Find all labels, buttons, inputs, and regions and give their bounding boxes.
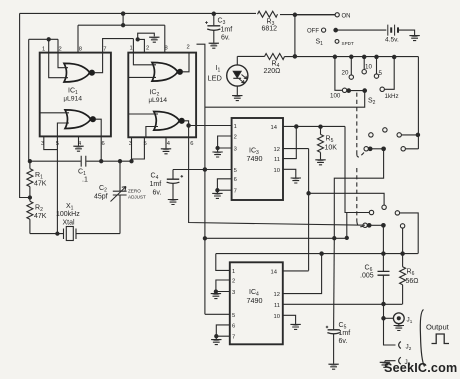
resistor R5 bbox=[320, 127, 322, 135]
wire pin14 stub to Vcc wire bbox=[346, 213, 348, 238]
svg-text:47K: 47K bbox=[34, 181, 47, 188]
svg-text:6: 6 bbox=[234, 177, 237, 183]
IC3 box bbox=[232, 118, 283, 200]
pins IC2 bbox=[129, 45, 194, 148]
wire IC2 top gate lower input bbox=[128, 76, 156, 78]
capacitor C3 electrolytic bbox=[213, 14, 215, 25]
pins IC1 bbox=[41, 47, 106, 148]
resistor R4 bbox=[265, 54, 285, 60]
svg-text:3: 3 bbox=[234, 147, 237, 153]
svg-text:5: 5 bbox=[232, 313, 235, 319]
resistor R1 bbox=[29, 161, 31, 168]
svg-text:3: 3 bbox=[232, 290, 235, 296]
svg-text:SeekIC.com: SeekIC.com bbox=[384, 361, 457, 375]
ground battery bbox=[409, 36, 419, 41]
wire IC2 pin1 riser from IC1 pin7 wire bbox=[132, 39, 134, 53]
svg-text:J1: J1 bbox=[407, 317, 413, 324]
svg-text:C4: C4 bbox=[151, 173, 159, 182]
svg-text:7490: 7490 bbox=[247, 296, 263, 305]
switch S1 OFF contact bbox=[322, 28, 326, 32]
svg-text:4: 4 bbox=[167, 141, 171, 147]
switch S2 deck2 wiper bbox=[364, 147, 368, 151]
wire deck2 lower contact to right rail bbox=[401, 147, 405, 151]
svg-text:7490: 7490 bbox=[247, 154, 263, 163]
wire deck2 wiper to C5 node bbox=[334, 149, 383, 238]
wire deck3 wiper to C6 bbox=[382, 225, 384, 252]
wire battery to ground bbox=[399, 30, 415, 35]
wire IC2 pin6 drop long to IC4 region bbox=[189, 126, 365, 226]
svg-text:Output: Output bbox=[426, 323, 450, 332]
svg-text:1: 1 bbox=[42, 47, 45, 53]
svg-text:SPDT: SPDT bbox=[342, 41, 354, 46]
crystal X1 bbox=[64, 229, 77, 240]
wire IC2 bottom gate upper input bbox=[128, 113, 158, 115]
wire LED cathode to ground bbox=[236, 86, 238, 95]
IC4 box bbox=[230, 262, 283, 344]
wire LED anode bbox=[236, 56, 238, 65]
resistor R2 bbox=[29, 198, 31, 202]
svg-text:μL914: μL914 bbox=[149, 97, 168, 104]
wire IC4 pin1 riser to y253 net bbox=[216, 254, 418, 271]
svg-text:S1: S1 bbox=[316, 39, 324, 48]
connector J2 bbox=[384, 318, 396, 345]
svg-text:1mf: 1mf bbox=[339, 330, 351, 337]
resistor R6 bbox=[402, 254, 404, 267]
pins IC4 bbox=[232, 269, 280, 341]
ground IC3 pin10 bbox=[291, 178, 301, 183]
svg-text:LED: LED bbox=[208, 74, 222, 83]
capacitor C6 bbox=[382, 254, 384, 271]
wire deck3 contact feed from IC3 pin12 bbox=[309, 193, 385, 205]
wire IC2 pin1 internal drop to gate bbox=[133, 53, 156, 65]
svg-text:45pf: 45pf bbox=[94, 194, 108, 201]
wire IC1 pin2 drop to gate input bbox=[58, 39, 68, 67]
switch S2 deck1 contact 5 bbox=[376, 57, 378, 74]
node bus junction dots bbox=[121, 12, 124, 15]
svg-text:5: 5 bbox=[56, 141, 59, 147]
capacitor C5 electrolytic bbox=[333, 238, 336, 329]
svg-text:J2: J2 bbox=[406, 344, 412, 351]
svg-text:1: 1 bbox=[234, 124, 237, 130]
svg-text:1: 1 bbox=[232, 269, 235, 275]
wire S1 pole drop bbox=[294, 15, 296, 57]
wire IC1 top gate output to pin7 bbox=[94, 39, 133, 73]
wire deck3 contact to y253 net bbox=[400, 213, 419, 254]
wire IC3 pin12/11 tie bbox=[283, 149, 309, 159]
svg-text:C3: C3 bbox=[218, 18, 226, 27]
svg-text:2: 2 bbox=[59, 47, 62, 53]
ground J3 bbox=[380, 362, 390, 367]
ground C4 bbox=[168, 200, 178, 205]
switch S1 lower contact bbox=[335, 40, 339, 44]
capacitor C1 bbox=[81, 156, 86, 167]
ground IC2 pin1/2 bbox=[149, 37, 159, 42]
svg-text:3: 3 bbox=[129, 141, 132, 147]
wire dashed S2 gang link bbox=[357, 93, 364, 157]
ground R5 bbox=[315, 160, 325, 165]
wire IC2 pin3 drop bbox=[131, 137, 133, 161]
ground LED bbox=[232, 96, 242, 101]
switch S2 deck1 contact 10 bbox=[363, 57, 365, 70]
svg-text:C2: C2 bbox=[99, 185, 107, 194]
connector J1 bbox=[383, 304, 385, 318]
wire IC3 pin14 line bbox=[283, 125, 345, 127]
connector J3 bbox=[385, 361, 396, 362]
svg-text:12: 12 bbox=[274, 292, 280, 298]
wire IC4 pin12 riser to y253 bbox=[283, 254, 322, 294]
svg-text:10: 10 bbox=[274, 168, 280, 174]
wire IC2 bottom gate output to pin6 and IC3 pin1 bbox=[184, 121, 232, 126]
wire S1 pole to battery bbox=[338, 29, 387, 31]
wire top supply bus bbox=[20, 12, 256, 14]
svg-text:4.5v.: 4.5v. bbox=[385, 37, 399, 44]
svg-text:1: 1 bbox=[130, 46, 133, 52]
wire IC4 pin6/7 tie to ground bbox=[216, 325, 230, 339]
svg-text:14: 14 bbox=[271, 125, 278, 131]
switch S2 deck1 contact 1kHz bbox=[380, 87, 384, 91]
wire IC4 pin14 riser bbox=[283, 270, 309, 272]
switch S1 ON contact bbox=[335, 13, 339, 17]
wire IC3 pin2/3 tie to ground bbox=[218, 136, 232, 152]
wire IC1 bottom gate lower input from pin5 bbox=[57, 123, 69, 136]
svg-text:5: 5 bbox=[379, 70, 383, 77]
svg-text:56Ω: 56Ω bbox=[406, 278, 419, 285]
svg-text:3: 3 bbox=[41, 141, 44, 147]
svg-text:R6: R6 bbox=[407, 269, 415, 278]
ground IC1 pin4 bbox=[78, 136, 80, 145]
wire oscillator feedback node horizontal bbox=[30, 160, 132, 162]
svg-text:ON: ON bbox=[342, 14, 351, 20]
ground J1 bbox=[394, 326, 404, 331]
wire IC4 pin2/3 tie to ground bbox=[216, 280, 230, 293]
capacitor C4 electrolytic bbox=[172, 170, 174, 179]
resistor R3 in bus bbox=[258, 11, 278, 17]
svg-text:6: 6 bbox=[190, 141, 193, 147]
wire IC1 bottom gate output to pin6 bbox=[95, 119, 101, 161]
wire IC3 pin6/7 tie to ground bbox=[217, 179, 231, 193]
svg-text:R5: R5 bbox=[326, 136, 334, 145]
svg-text:ZERO: ZERO bbox=[128, 189, 141, 194]
wire R4/S2 bus line bbox=[237, 55, 418, 57]
op-amp gate IC2b (bottom NOR) bbox=[154, 112, 184, 131]
svg-text:6v.: 6v. bbox=[339, 338, 348, 345]
waveform square wave bbox=[432, 334, 450, 344]
wire IC1 pin8 riser bbox=[77, 25, 79, 52]
wire IC2 pin8 riser bbox=[164, 25, 166, 52]
svg-text:20: 20 bbox=[342, 70, 349, 77]
battery B1 4.5v bbox=[388, 25, 395, 36]
wire IC1 pin3 hook to pin5 line bbox=[44, 136, 58, 149]
svg-text:2: 2 bbox=[146, 46, 149, 52]
svg-text:2: 2 bbox=[234, 135, 237, 141]
wire S2 right edge drop bbox=[417, 57, 419, 149]
wire IC2 bottom gate lower input from pin5 bbox=[146, 127, 158, 138]
svg-text:10K: 10K bbox=[325, 145, 338, 152]
pins IC3 bbox=[234, 124, 280, 195]
svg-text:S2: S2 bbox=[368, 98, 376, 107]
svg-text:R2: R2 bbox=[35, 205, 43, 214]
svg-text:I1: I1 bbox=[216, 65, 221, 74]
svg-text:10: 10 bbox=[365, 64, 372, 71]
svg-text:2: 2 bbox=[232, 279, 235, 285]
svg-text:.005: .005 bbox=[360, 273, 374, 280]
wire IC1 pin1 feedback bracket bbox=[29, 38, 58, 40]
svg-text:100kHz: 100kHz bbox=[56, 211, 80, 218]
wire left outer vertical to R1/R2 junction bbox=[20, 13, 30, 197]
wire top supply bus right of R3 bbox=[280, 14, 336, 16]
wire IC2 pin5 drop bbox=[132, 137, 145, 159]
wire IC1 left feedback vertical bbox=[28, 39, 30, 161]
op-amp gate IC1a (top NOR) bbox=[64, 63, 94, 82]
wire crystal line bbox=[30, 233, 120, 235]
wire IC2 top gate output to pin7 bbox=[182, 53, 189, 72]
svg-text:6: 6 bbox=[102, 141, 105, 147]
wire IC3 pin14 drop to deck3 contact bbox=[345, 126, 369, 212]
wire deck2 contact to right rail bbox=[401, 134, 418, 136]
capacitor C2 variable bbox=[119, 161, 121, 233]
ground C5 bbox=[328, 364, 338, 369]
switch S2 deck3 wiper bbox=[363, 223, 367, 227]
wire Vcc/C5 branch line bbox=[205, 237, 347, 239]
svg-text:6: 6 bbox=[232, 323, 235, 329]
wire IC4 pin11 output line bbox=[283, 303, 402, 305]
svg-text:220Ω: 220Ω bbox=[264, 68, 281, 75]
svg-text:11: 11 bbox=[274, 157, 280, 163]
switch S2 deck1 contact 20 bbox=[350, 57, 352, 75]
svg-text:7: 7 bbox=[234, 189, 237, 195]
op-amp gate IC2a (top NOR) bbox=[152, 63, 182, 82]
ground IC3 pin6/7 bbox=[212, 193, 222, 198]
output bracket bbox=[420, 310, 424, 367]
ground IC4 pin6/7 bbox=[211, 340, 221, 345]
svg-text:47K: 47K bbox=[34, 213, 47, 220]
ground IC3 pin2/3 bbox=[212, 152, 222, 157]
wire Vcc column down from IC2 pin7 area bbox=[197, 44, 205, 314]
svg-text:5: 5 bbox=[234, 168, 237, 174]
switch S2 deck1 contact 100 + wiper bbox=[335, 57, 342, 91]
svg-text:11: 11 bbox=[274, 303, 280, 309]
svg-text:7: 7 bbox=[232, 335, 235, 341]
svg-text:OFF: OFF bbox=[307, 29, 319, 35]
svg-text:14: 14 bbox=[271, 269, 278, 275]
ground IC2 pin4 bbox=[165, 137, 167, 148]
wire IC4 pin10 to ground bbox=[283, 315, 296, 324]
wire IC1 bottom gate upper input bbox=[40, 112, 69, 114]
node S2 bus dots bbox=[333, 55, 336, 58]
svg-text:Xtal: Xtal bbox=[63, 220, 76, 227]
svg-text:6v.: 6v. bbox=[221, 35, 230, 42]
svg-text:2: 2 bbox=[187, 45, 190, 51]
wire IC4 pin5 Vcc bbox=[205, 313, 230, 315]
svg-text:7: 7 bbox=[103, 47, 106, 53]
svg-text:μL914: μL914 bbox=[64, 96, 83, 103]
diode LED I1 bbox=[227, 65, 248, 86]
svg-text:5: 5 bbox=[144, 141, 147, 147]
svg-text:8: 8 bbox=[165, 46, 168, 52]
wire IC1 pin3/5 drop to crystal line bbox=[56, 136, 58, 233]
svg-text:10: 10 bbox=[274, 314, 280, 320]
wire power drop to IC1/IC2 pin8 rail bbox=[122, 14, 124, 26]
IC2 box bbox=[128, 53, 196, 138]
ground IC4 pin2/3 bbox=[211, 294, 221, 299]
svg-text:6v.: 6v. bbox=[153, 190, 162, 197]
wire IC2 pin1/2 tie with ground stub bbox=[138, 33, 155, 52]
switch S2 deck2 contacts bbox=[369, 133, 373, 137]
svg-text:8: 8 bbox=[79, 47, 82, 53]
wire IC3 pin14 to pin12 link bbox=[295, 127, 297, 149]
svg-text:1kHz: 1kHz bbox=[385, 93, 399, 100]
svg-text:100: 100 bbox=[330, 93, 341, 100]
wire deck3 contact down to R6 bbox=[402, 228, 404, 254]
svg-text:R1: R1 bbox=[35, 172, 43, 181]
ground IC4 pin10 bbox=[290, 324, 300, 329]
ground C3 bbox=[209, 43, 219, 48]
wire IC3 pin12 to deck3 contact feed bbox=[308, 149, 310, 271]
svg-text:1mf: 1mf bbox=[221, 27, 233, 34]
IC1 box bbox=[40, 53, 111, 137]
svg-text:12: 12 bbox=[274, 147, 280, 153]
svg-text:.1: .1 bbox=[82, 177, 88, 184]
wire pin8 rail bbox=[78, 24, 165, 26]
wire IC3 pin10 to ground bbox=[283, 169, 296, 177]
op-amp gate IC1b (bottom NOR) bbox=[65, 110, 95, 129]
wire bus to S1 ON bbox=[295, 14, 335, 16]
svg-text:6812: 6812 bbox=[262, 26, 278, 33]
svg-text:ADJUST: ADJUST bbox=[128, 195, 146, 200]
wire IC3 pin5 Vcc line with C4 bbox=[173, 169, 232, 171]
switch S2 deck3 contacts bbox=[369, 210, 373, 214]
svg-text:1mf: 1mf bbox=[150, 181, 162, 188]
wire IC1 pin1 drop to gate input bbox=[49, 39, 68, 77]
